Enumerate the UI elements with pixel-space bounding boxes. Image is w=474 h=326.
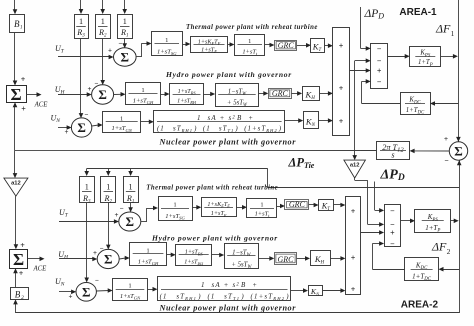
svg-text:−: −: [95, 277, 99, 285]
svg-text:1: 1: [20, 26, 23, 31]
svg-text:+: +: [93, 249, 97, 257]
svg-text:+: +: [88, 85, 92, 93]
svg-text:2: 2: [447, 247, 451, 256]
svg-text:−: −: [377, 77, 382, 86]
svg-text:−: −: [85, 111, 89, 119]
svg-text:1 sA + s2​B +: 1 sA + s2​B +: [201, 281, 257, 289]
svg-text:Σ: Σ: [10, 85, 21, 104]
svg-text:KN​: KN​: [305, 116, 316, 128]
svg-text:+: +: [339, 117, 344, 126]
svg-text:1: 1: [173, 201, 176, 208]
svg-text:+: +: [351, 207, 356, 216]
svg-text:+: +: [444, 134, 448, 143]
svg-text:s: s: [391, 150, 394, 159]
svg-text:1+sKF​TF​: 1+sKF​TF​: [207, 201, 230, 209]
svg-text:1+sTt​: 1+sTt​: [255, 210, 271, 218]
svg-text:Nuclear power plant with gover: Nuclear power plant with governor: [159, 137, 297, 146]
svg-text:+: +: [65, 128, 69, 136]
svg-text:+: +: [351, 254, 356, 263]
svg-text:Σ: Σ: [98, 87, 107, 102]
svg-text:KT​: KT​: [312, 41, 323, 53]
svg-text:1+sKF​TF​: 1+sKF​TF​: [198, 39, 221, 47]
svg-text:Σ: Σ: [104, 252, 113, 267]
svg-text:Σ: Σ: [82, 284, 91, 299]
svg-text:(1 sTRH1​) (1 sTT1​) (1+: (1 sTRH1​) (1 sTT1​) (1+sTRH2​): [157, 125, 282, 133]
svg-text:GRC: GRC: [272, 89, 289, 98]
svg-text:−: −: [120, 205, 124, 213]
svg-text:Σ: Σ: [126, 214, 135, 229]
svg-text:Thermal power plant with rehea: Thermal power plant with reheat turbine: [186, 24, 318, 31]
svg-text:−: −: [377, 44, 382, 53]
svg-text:+: +: [377, 67, 382, 76]
svg-text:1+sTt​: 1+sTt​: [242, 48, 258, 56]
svg-text:−: −: [390, 239, 395, 248]
svg-text:a12: a12: [11, 181, 21, 187]
svg-text:ΔF: ΔF: [431, 240, 447, 254]
svg-text:+: +: [21, 105, 26, 114]
svg-text:Nuclear power plant with gover: Nuclear power plant with governor: [159, 303, 297, 312]
svg-text:+: +: [21, 75, 26, 84]
svg-text:1: 1: [451, 29, 455, 38]
svg-text:1: 1: [146, 247, 149, 254]
svg-text:+: +: [351, 285, 356, 294]
svg-text:Σ: Σ: [454, 144, 463, 159]
svg-text:1: 1: [141, 87, 144, 94]
svg-text:+: +: [339, 42, 344, 51]
svg-text:Hydro power plant with governo: Hydro power plant with governor: [151, 234, 278, 243]
svg-text:B: B: [15, 289, 21, 299]
svg-text:1: 1: [79, 17, 83, 26]
svg-text:ΔF: ΔF: [435, 22, 451, 36]
svg-text:AREA-1: AREA-1: [399, 7, 437, 18]
svg-text:1: 1: [120, 115, 123, 122]
svg-text:+: +: [69, 293, 73, 301]
svg-text:2: 2: [21, 295, 24, 301]
svg-text:+: +: [390, 229, 395, 238]
svg-text:1: 1: [85, 183, 89, 192]
svg-text:1: 1: [248, 38, 251, 45]
svg-text:1: 1: [129, 183, 133, 192]
svg-text:−: −: [444, 156, 448, 165]
svg-text:1: 1: [260, 201, 263, 208]
svg-text:+: +: [108, 47, 112, 55]
svg-text:GRC: GRC: [278, 41, 295, 50]
svg-text:−: −: [377, 57, 382, 66]
svg-text:Thermal power plant with rehea: Thermal power plant with reheat turbine: [146, 185, 278, 192]
svg-text:1: 1: [123, 17, 127, 26]
svg-text:1: 1: [101, 17, 105, 26]
svg-text:Hydro power plant with governo: Hydro power plant with governor: [165, 70, 292, 79]
svg-text:GRC: GRC: [278, 255, 295, 264]
svg-text:+: +: [115, 211, 119, 219]
svg-text:Σ: Σ: [121, 50, 130, 65]
svg-text:1: 1: [106, 183, 110, 192]
svg-text:Σ: Σ: [13, 250, 24, 269]
svg-text:Σ: Σ: [77, 120, 86, 135]
svg-text:−: −: [119, 40, 123, 48]
svg-text:ACE: ACE: [34, 102, 49, 109]
svg-text:AREA-2: AREA-2: [401, 300, 439, 311]
svg-text:ACE: ACE: [33, 266, 48, 273]
svg-text:1: 1: [128, 283, 131, 290]
svg-text:+: +: [19, 269, 24, 278]
svg-text:+: +: [20, 241, 25, 250]
svg-text:1: 1: [165, 37, 168, 44]
svg-text:+: +: [339, 84, 344, 93]
svg-text:GRC: GRC: [289, 200, 306, 209]
svg-text:−: −: [390, 206, 395, 215]
svg-text:a12: a12: [350, 163, 360, 169]
svg-text:1 sA + s2​B +: 1 sA + s2​B +: [197, 114, 253, 122]
